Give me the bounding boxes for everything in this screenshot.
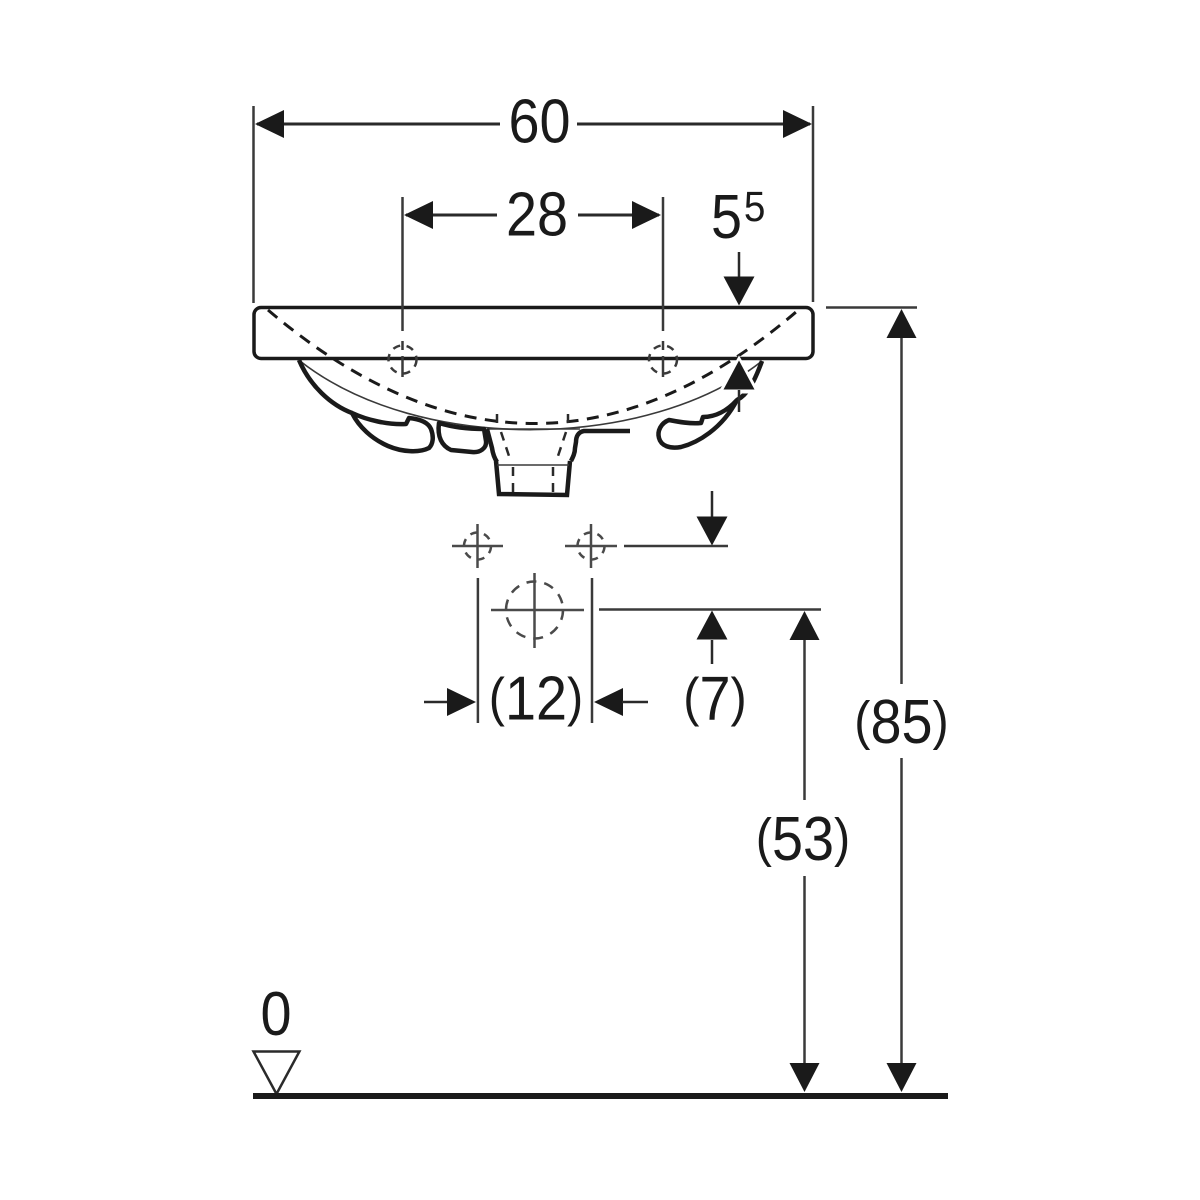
faucet hole crosshair right bbox=[649, 341, 677, 377]
basin right wing (mounting lug hook) bbox=[658, 400, 737, 448]
dimension (12): label bbox=[489, 665, 583, 733]
drain trap: top thin line bbox=[487, 428, 580, 430]
dimension 28: label bbox=[506, 181, 568, 249]
dimension 60: left arrowhead bbox=[255, 110, 284, 138]
datum label 0 bbox=[260, 980, 291, 1048]
dimension 5.5: upper arrow (down) bbox=[738, 252, 741, 277]
svg-text:(12): (12) bbox=[489, 665, 583, 733]
drain trap: dashed details bbox=[497, 414, 568, 493]
basin rim hidden edge (dashed arc) bbox=[268, 310, 796, 424]
dimension (85): extension line from slab bbox=[826, 306, 917, 309]
datum triangle bbox=[254, 1052, 300, 1095]
dimension (7): label bbox=[683, 665, 746, 733]
dimension (85): label bbox=[854, 688, 948, 756]
dimension (12): left arrow bbox=[424, 701, 449, 704]
drain reference line to (53) dimension bbox=[599, 608, 821, 611]
svg-text:(53): (53) bbox=[756, 805, 850, 873]
dimension 60: label bbox=[508, 88, 570, 156]
dimension (12): right extension line bbox=[591, 578, 594, 723]
dimension 28: left extension line bbox=[401, 197, 404, 331]
svg-text:60: 60 bbox=[508, 88, 570, 156]
dimension (53): bottom arrow (down) bbox=[790, 1063, 820, 1092]
supply connection crosshair right bbox=[565, 524, 617, 568]
dimension (53): label bbox=[756, 805, 850, 873]
drain hole crosshair bbox=[491, 573, 584, 648]
drain trap: left wall bbox=[487, 429, 497, 462]
svg-text:(85): (85) bbox=[854, 688, 948, 756]
dimension (53): dimension line bbox=[803, 637, 806, 800]
dimension 28: right arrowhead bbox=[632, 201, 661, 229]
dimension 60: right arrowhead bbox=[783, 110, 812, 138]
basin inner rim (thin curve) bbox=[300, 361, 762, 430]
faucet hole crosshair left bbox=[389, 341, 417, 377]
floor line bbox=[253, 1093, 948, 1099]
dimension (7): lower arrow (up) bbox=[697, 611, 728, 640]
dimension (85): dimension line bbox=[900, 337, 903, 684]
basin right connector shelf bbox=[571, 431, 630, 461]
dimension 28: right extension line bbox=[662, 197, 665, 331]
dimension 28: left arrowhead bbox=[404, 201, 433, 229]
dimension 5.5: label bbox=[711, 182, 765, 252]
svg-text:(7): (7) bbox=[683, 665, 746, 733]
dimension 60: right extension line bbox=[812, 106, 815, 302]
svg-text:55: 55 bbox=[711, 182, 765, 252]
dimension 60: dimension line bbox=[257, 123, 500, 126]
basin left wing (mounting lug hook) bbox=[352, 413, 433, 451]
dimension (85): bottom arrow (down) bbox=[887, 1063, 917, 1092]
dimension 28: dimension line bbox=[406, 214, 497, 217]
supply reference line to (7) arrow bbox=[624, 545, 728, 548]
dimension (12): left extension line bbox=[477, 578, 480, 723]
dimension 60: left extension line bbox=[252, 106, 255, 303]
basin underside outer profile right bbox=[737, 361, 762, 400]
washbasin slab (front view) bbox=[254, 308, 813, 359]
dimension 5.5: lower arrow (up) with white casing bbox=[722, 361, 756, 392]
drain trap: box top thin line bbox=[497, 464, 569, 466]
dimension (12): right arrow bbox=[594, 688, 623, 716]
dimension (53): top arrow (up) bbox=[790, 611, 820, 640]
drain trap: lower box bbox=[496, 461, 570, 495]
basin underside outer profile left bbox=[299, 360, 352, 413]
dimension (7): upper arrow (down) bbox=[711, 491, 714, 517]
svg-text:0: 0 bbox=[260, 980, 291, 1048]
svg-text:28: 28 bbox=[506, 181, 568, 249]
dimension (85): top arrow (up) bbox=[887, 309, 917, 338]
basin left block bbox=[439, 423, 487, 452]
supply connection crosshair left bbox=[452, 524, 503, 568]
